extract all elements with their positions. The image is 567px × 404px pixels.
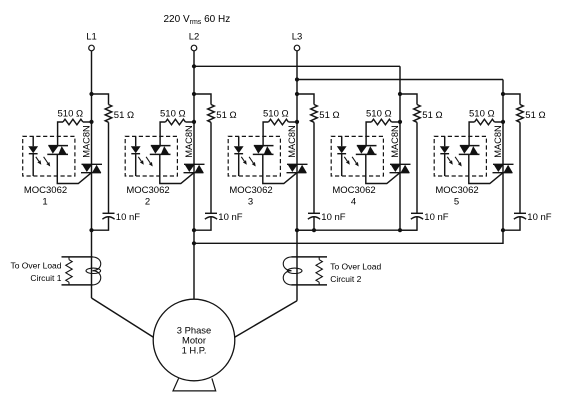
svg-text:L3: L3: [292, 31, 303, 42]
svg-text:To Over Load: To Over Load: [330, 261, 381, 271]
svg-text:Circuit 2: Circuit 2: [330, 274, 361, 284]
svg-text:L1: L1: [86, 31, 97, 42]
svg-text:L2: L2: [189, 31, 200, 42]
svg-text:To Over Load: To Over Load: [10, 260, 61, 270]
svg-text:4: 4: [351, 197, 356, 208]
svg-text:3: 3: [248, 197, 253, 208]
svg-text:Circuit 1: Circuit 1: [30, 273, 61, 283]
svg-text:1: 1: [42, 197, 47, 208]
svg-text:1 H.P.: 1 H.P.: [182, 345, 207, 356]
svg-text:5: 5: [454, 197, 459, 208]
svg-text:2: 2: [145, 197, 150, 208]
